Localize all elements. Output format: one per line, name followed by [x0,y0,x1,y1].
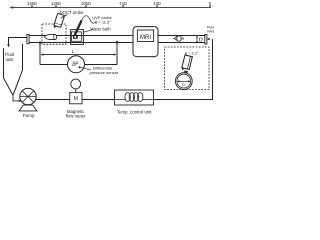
svg-text:44D: 44D [153,1,161,6]
svg-text:ΔP: ΔP [72,62,79,68]
svg-text:Water bath: Water bath [90,26,111,31]
svg-text:L: L [72,49,75,55]
svg-text:pressure sensor: pressure sensor [89,70,118,75]
svg-text:74D: 74D [119,1,127,6]
svg-text:θ = 11.5°: θ = 11.5° [95,19,111,24]
svg-text:flow meter: flow meter [66,114,86,119]
svg-text:M: M [74,96,78,102]
svg-text:146D: 146D [27,1,37,6]
svg-text:D: D [199,37,203,43]
svg-text:Pump: Pump [23,113,35,118]
svg-text:105D: 105D [81,1,91,6]
svg-text:DOCT probe: DOCT probe [60,10,84,15]
svg-text:inlet: inlet [207,30,214,34]
svg-text:tank: tank [6,57,15,62]
svg-text:R: R [182,36,185,41]
svg-text:θ = 3.2°: θ = 3.2° [185,51,199,55]
svg-text:MRI: MRI [140,35,151,41]
svg-text:126D: 126D [51,1,61,6]
svg-text:Temp. control unit: Temp. control unit [117,109,152,114]
